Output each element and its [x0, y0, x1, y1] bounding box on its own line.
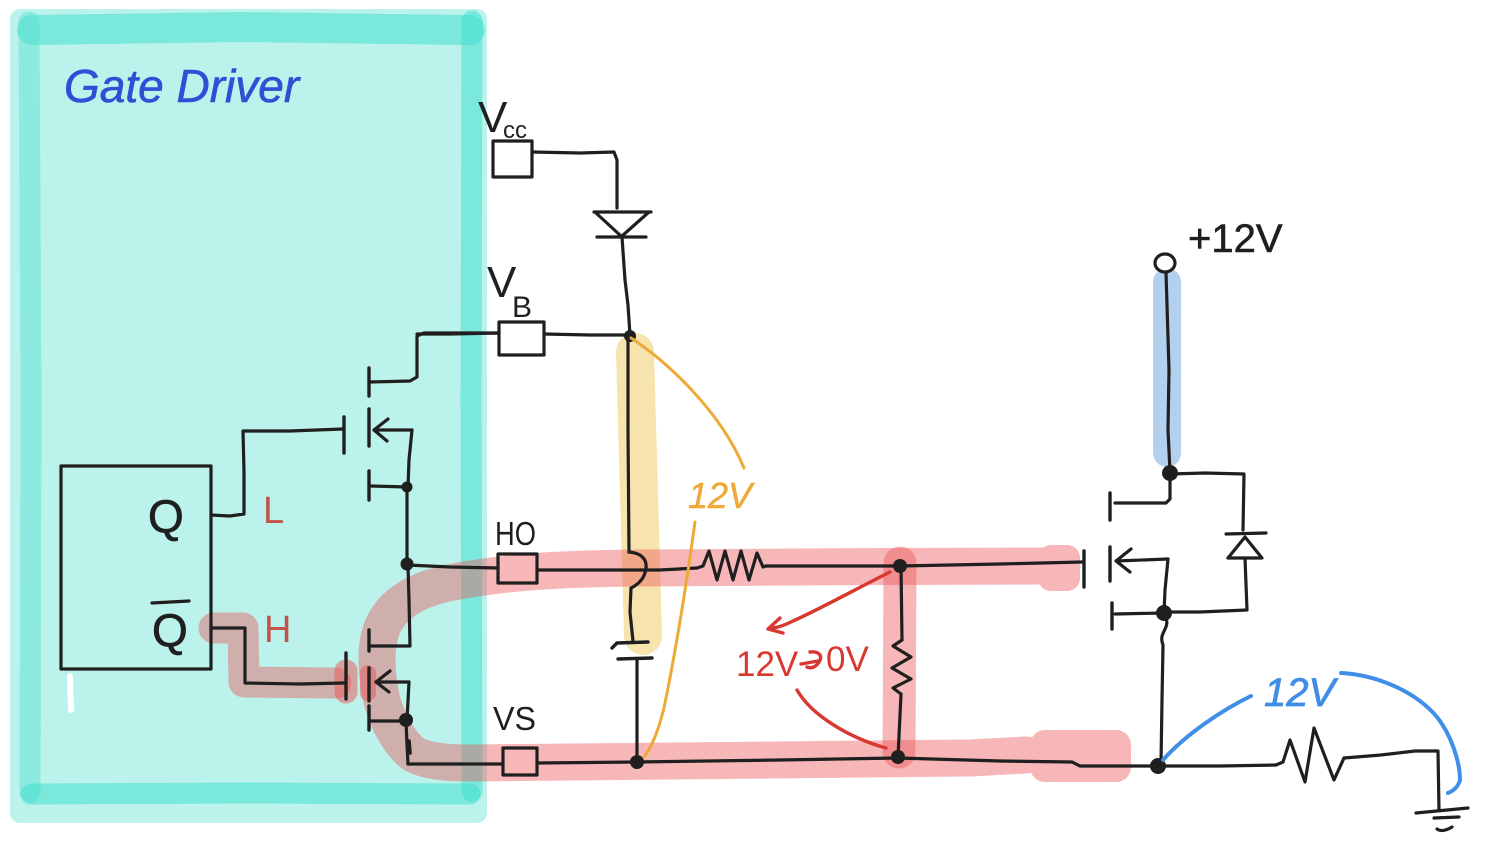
wire Q1 source down	[408, 430, 412, 487]
transistor Q3 gate bar	[1082, 551, 1085, 587]
svg-text:Gate Driver: Gate Driver	[64, 60, 301, 112]
pin VS box	[503, 748, 537, 775]
junction HO node	[401, 558, 414, 571]
gate driver highlight region border right	[471, 21, 472, 791]
junction VB node	[624, 330, 636, 342]
wire Q3 source down	[1164, 559, 1168, 612]
Qbar overline	[152, 601, 189, 603]
svg-text:Q: Q	[152, 604, 188, 656]
pin VB box	[499, 322, 544, 355]
wire VS box to power stage	[537, 758, 1158, 766]
wire Q output to Q1 gate	[211, 429, 343, 516]
wire VB node down to bootstrap cap with hop over HO	[628, 336, 646, 641]
svg-text:+12V: +12V	[1188, 217, 1283, 261]
wire Q1 source to HO node	[405, 487, 408, 564]
svg-text:VS: VS	[493, 700, 536, 737]
resistor R3	[1276, 728, 1344, 782]
transistor Q1 source arrow	[374, 419, 412, 441]
junction VS switch node	[1150, 758, 1166, 774]
pink highlight blob at HO band end	[1038, 545, 1080, 591]
wire VB box to VB node	[544, 334, 630, 335]
transistor Q1 body lead	[371, 486, 406, 487]
blue highlight strip on +12V wire	[1153, 282, 1181, 453]
wire VB box to Q1 drain	[417, 333, 499, 334]
wire D2 anode to Q3 source	[1164, 558, 1247, 612]
yellow highlight strip on VB net	[635, 352, 643, 636]
wire Q3 drain to body diode	[1170, 473, 1244, 530]
transistor Q1 drain segment	[367, 368, 370, 396]
pink highlight blob on Q2 channel bar	[360, 673, 376, 693]
capacitor C1 bottom plate	[618, 658, 652, 659]
pink highlight band on HO net	[377, 566, 1062, 763]
junction Q2 source node	[399, 713, 413, 727]
wire Q1 drain to VB box	[370, 333, 499, 382]
transistor Q2 drain segment	[367, 630, 370, 651]
transistor Q3 source segment	[1108, 547, 1111, 581]
wire Q2 source to VS line	[406, 720, 408, 764]
gate driver highlight region border bottom	[31, 793, 470, 794]
annotation red leader bottom	[797, 690, 886, 748]
resistor R2	[892, 640, 911, 694]
body diode D2 cathode bar	[1226, 533, 1266, 534]
transistor Q3 drain lead	[1115, 474, 1170, 503]
eraser mark	[70, 676, 71, 710]
gate driver highlight region border left	[29, 22, 31, 792]
pink highlight blob at VS band end	[1030, 730, 1131, 782]
transistor Q1 gate bar	[342, 417, 345, 453]
svg-text:HO: HO	[495, 515, 536, 552]
wire Qbar output to Q2 gate	[211, 628, 344, 684]
junction gate node	[893, 559, 907, 573]
annotation blue leader left	[1163, 696, 1251, 760]
transistor Q2 source arrow	[376, 671, 409, 692]
svg-text:12V: 12V	[736, 645, 799, 684]
pink highlight band on H wire	[214, 628, 336, 683]
svg-text:12V: 12V	[1264, 671, 1338, 715]
wire HO node to HO box	[407, 565, 498, 568]
overdraw tick on Q2 source wire	[409, 741, 410, 753]
terminal +12V	[1155, 254, 1175, 272]
junction C1/VS node	[630, 755, 644, 769]
ground	[1416, 808, 1468, 830]
transistor Q1 source segment	[367, 409, 370, 446]
transistor Q2 body segment	[367, 706, 370, 730]
annotation red leader top with arrowhead	[768, 572, 890, 633]
wire VS node to resistor R3	[1158, 765, 1276, 766]
junction R2/VS node	[891, 750, 905, 764]
junction Q3 source node	[1156, 605, 1172, 621]
wire HO box to resistor R1	[537, 568, 697, 570]
wire R3 to ground	[1344, 751, 1439, 810]
transistor Q3 drain segment	[1108, 493, 1111, 520]
wire Q2 drain to HO node	[371, 566, 410, 646]
svg-text:H: H	[264, 609, 291, 651]
wire R1 to gate node	[766, 564, 900, 567]
transistor Q2 source segment	[367, 668, 370, 701]
annotation red arrow glyph	[801, 652, 821, 668]
transistor Q2 gate bar	[344, 653, 347, 699]
gate driver highlight region border top	[32, 27, 470, 30]
wire Q3 source squiggle down to VS node	[1161, 617, 1167, 763]
svg-text:0V: 0V	[826, 640, 869, 679]
wire C1 to VS line	[635, 660, 638, 755]
resistor R1	[697, 551, 766, 580]
wire R2 to VS line	[898, 694, 901, 757]
wire Q2 source down	[407, 682, 409, 720]
svg-text:12V: 12V	[688, 475, 755, 516]
wire gate node to Q3 gate	[900, 562, 1082, 566]
wire +12V to Q3 drain node	[1166, 272, 1170, 472]
transistor Q3 body segment	[1110, 603, 1113, 629]
transistor Q3 source arrow	[1116, 549, 1168, 572]
junction Q1 source node	[402, 482, 413, 493]
wire gate node to resistor R2	[901, 566, 902, 640]
junction Q3 drain node	[1162, 465, 1178, 481]
svg-text:Q: Q	[148, 490, 184, 542]
pin HO box	[498, 554, 537, 583]
gate driver highlight region fill	[10, 9, 487, 823]
latch box U1	[61, 466, 211, 669]
body diode D2 triangle	[1228, 537, 1262, 558]
pin Vcc box	[493, 141, 532, 177]
svg-text:B: B	[512, 291, 532, 324]
diode D1	[594, 212, 651, 237]
annotation yellow leader upper	[631, 338, 744, 468]
transistor Q2 body lead	[371, 719, 405, 722]
wire Q2 source to VS box	[408, 762, 503, 765]
pink highlight band on gate resistor R2	[899, 563, 900, 752]
svg-text:L: L	[263, 490, 284, 532]
transistor Q3 body lead	[1115, 613, 1163, 614]
pink highlight blob on Q2 gate bar	[335, 671, 358, 692]
wire Vcc to diode D1	[532, 152, 617, 208]
transistor Q1 body segment	[367, 471, 370, 500]
annotation blue leader right	[1341, 673, 1460, 793]
wire D1 cathode to VB node	[622, 237, 630, 335]
annotation yellow leader lower	[644, 522, 695, 757]
capacitor C1 top plate	[612, 642, 648, 648]
